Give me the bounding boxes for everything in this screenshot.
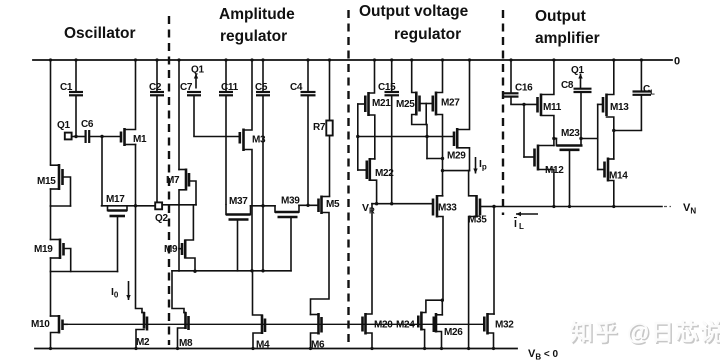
watermark zhihu bbox=[570, 319, 720, 347]
transistor M24 bbox=[418, 300, 442, 348]
capacitor C6 bbox=[86, 130, 90, 143]
svg-text:M6: M6 bbox=[311, 340, 325, 351]
transistor M20 bbox=[363, 204, 373, 349]
svg-text:Q1: Q1 bbox=[571, 65, 584, 76]
svg-text:C11: C11 bbox=[221, 82, 239, 93]
transistor M12 bbox=[524, 145, 554, 207]
wire C6 to M1 gate bbox=[89, 136, 121, 138]
svg-text:Q2: Q2 bbox=[155, 213, 168, 224]
svg-text:M39: M39 bbox=[281, 196, 300, 207]
svg-text:M4: M4 bbox=[256, 340, 270, 351]
transistor M25 bbox=[412, 60, 427, 137]
svg-text:Q1: Q1 bbox=[57, 120, 70, 131]
wire M15 source to M19 drain bbox=[50, 206, 52, 240]
svg-text:M7: M7 bbox=[166, 175, 180, 186]
svg-text:Amplitude: Amplitude bbox=[219, 6, 295, 23]
svg-text:M3: M3 bbox=[252, 135, 266, 146]
svg-text:M15: M15 bbox=[37, 176, 56, 187]
wire M21/M22 gate node vertical bbox=[357, 104, 359, 170]
transistor M32 bbox=[484, 313, 494, 349]
junction C4 on M5 gate wire bbox=[306, 204, 309, 207]
transistor M27 bbox=[433, 60, 443, 196]
section divider (dashed) output voltage regulator / output amplifier bbox=[502, 10, 504, 215]
wire M39 to M5 gate bbox=[299, 204, 319, 206]
node Q2 wire bbox=[102, 205, 156, 207]
svg-text:M12: M12 bbox=[545, 165, 564, 176]
wire C16 to M11 gate bbox=[511, 103, 538, 105]
resistor R7 bbox=[326, 60, 332, 197]
wire gate node to M29 gate bbox=[358, 136, 454, 138]
current arrow IL bbox=[516, 212, 538, 216]
wire chain down to M27 source link bbox=[426, 137, 428, 159]
transistor M13 bbox=[603, 60, 614, 159]
VN rail end dashes bbox=[664, 206, 671, 208]
svg-text:M33: M33 bbox=[438, 203, 457, 214]
wire Q1 pad to C6 bbox=[72, 136, 85, 138]
capacitor CL bbox=[633, 60, 652, 131]
capacitor C15 bbox=[385, 60, 400, 204]
capacitor C1 bbox=[69, 60, 83, 137]
wire link to M27/M33 vertical bbox=[427, 158, 443, 160]
svg-text:M2: M2 bbox=[136, 337, 150, 348]
junction C15 on VR wire bbox=[390, 202, 393, 205]
bias node wire y=271 (oscillator/regulator bias net) bbox=[172, 270, 291, 272]
wire gate vertical to M13 gate bbox=[598, 103, 603, 105]
transistor M26 bbox=[434, 313, 443, 349]
svg-text:regulator: regulator bbox=[394, 26, 461, 43]
transistor M5 bbox=[311, 196, 330, 315]
wire left vertical rail-to-M15 bbox=[50, 60, 52, 164]
svg-text:M23: M23 bbox=[561, 128, 580, 139]
transistor M19 bbox=[51, 239, 118, 272]
svg-text:L: L bbox=[519, 222, 524, 231]
capacitor C7 bbox=[187, 92, 201, 137]
wire gate link to source chain bbox=[425, 104, 427, 125]
junction M27 source vertical / link bbox=[441, 157, 444, 160]
wire Q2 pad to M7 source node bbox=[163, 204, 179, 206]
transistor M39 bbox=[275, 205, 299, 270]
svg-text:C8: C8 bbox=[561, 80, 574, 91]
transistor M14 bbox=[598, 158, 614, 207]
wire M11 source to M23 left arm bbox=[554, 138, 557, 140]
svg-text:M20: M20 bbox=[374, 320, 393, 331]
top rail (0 V supply net) bbox=[33, 59, 672, 61]
svg-text:M1: M1 bbox=[133, 134, 147, 145]
capacitor C11 bbox=[219, 60, 233, 205]
svg-text:M10: M10 bbox=[31, 319, 50, 330]
junction dots VN rail bbox=[552, 205, 615, 208]
wire M7 source node down past M9 gate bbox=[178, 205, 180, 271]
svg-text:M11: M11 bbox=[543, 102, 562, 113]
pad Q2 (crystal pin) bbox=[155, 202, 162, 209]
transistor M29 bbox=[454, 60, 470, 171]
junction gate node / M29 gate wire bbox=[356, 135, 359, 138]
svg-text:Output: Output bbox=[535, 8, 586, 25]
wire M11/M12 gate vertical bbox=[523, 104, 525, 157]
junction M33 source on M24/M26 jog bbox=[441, 299, 444, 302]
svg-text:M37: M37 bbox=[229, 196, 248, 207]
junction M22 source on VR wire bbox=[375, 202, 378, 205]
transistor M17 bbox=[108, 206, 128, 272]
VN rail (negative output net) bbox=[494, 206, 662, 208]
junction C5 on M37/M39 wire bbox=[261, 204, 264, 207]
svg-text:M35: M35 bbox=[468, 215, 487, 226]
wire M37 drain to M39 drain bbox=[251, 205, 276, 207]
output node wire to CL bbox=[614, 130, 642, 132]
svg-text:M25: M25 bbox=[396, 99, 415, 110]
wire M1 source down to M2 drain bbox=[136, 145, 143, 313]
svg-text:R7: R7 bbox=[313, 122, 326, 133]
transistor M4 bbox=[253, 271, 266, 349]
svg-text:M9: M9 bbox=[164, 244, 178, 255]
current arrow Q1 into C7 bbox=[194, 74, 198, 89]
svg-text:M8: M8 bbox=[179, 338, 193, 349]
wire oscillator feedback vertical to M17 bbox=[101, 137, 103, 206]
transistor M35 bbox=[469, 171, 494, 349]
svg-text:M21: M21 bbox=[372, 98, 391, 109]
svg-text:M24: M24 bbox=[396, 320, 415, 331]
junction M25 source chain on M29 gate wire bbox=[425, 135, 428, 138]
transistor M11 bbox=[538, 60, 554, 146]
section divider (dashed) amplitude regulator / output voltage regulator bbox=[347, 10, 349, 347]
capacitor C5 bbox=[256, 60, 270, 271]
transistor M3 bbox=[240, 60, 252, 271]
svg-text:C5: C5 bbox=[255, 82, 268, 93]
svg-text:C7: C7 bbox=[180, 82, 193, 93]
svg-text:voltage: voltage bbox=[414, 3, 469, 20]
svg-text:0: 0 bbox=[674, 56, 680, 68]
svg-text:VB < 0: VB < 0 bbox=[528, 348, 559, 362]
junction VN rail start bbox=[492, 205, 495, 208]
svg-text:M29: M29 bbox=[447, 151, 466, 162]
transistor M6 bbox=[311, 313, 322, 349]
current arrow I0 bbox=[126, 281, 130, 300]
svg-text:M17: M17 bbox=[106, 194, 125, 205]
transistor M37 bbox=[226, 205, 251, 271]
svg-text:Output: Output bbox=[359, 3, 410, 20]
bottom rail (VB supply net) bbox=[35, 348, 517, 350]
transistor M1 bbox=[121, 60, 136, 146]
svg-text:M13: M13 bbox=[610, 102, 629, 113]
wire M23 right arm branch to M13/M14 gates bbox=[581, 138, 598, 140]
svg-text:C4: C4 bbox=[290, 82, 303, 93]
capacitor C4 bbox=[301, 60, 316, 205]
svg-text:C16: C16 bbox=[515, 83, 533, 94]
svg-text:I: I bbox=[514, 218, 517, 230]
svg-text:M14: M14 bbox=[609, 171, 628, 182]
transistor M10 bbox=[51, 315, 68, 349]
svg-text:C15: C15 bbox=[378, 82, 396, 93]
wire rail to M7 drain bbox=[178, 60, 180, 170]
section divider (dashed) oscillator / amplitude regulator bbox=[168, 16, 170, 345]
wire M25/M27 gate link bbox=[420, 103, 433, 105]
transistor M2 bbox=[136, 312, 147, 349]
transistor M7 bbox=[179, 169, 196, 205]
node VR wire bbox=[372, 203, 433, 205]
capacitor C16 bbox=[504, 60, 519, 104]
svg-text:regulator: regulator bbox=[220, 28, 287, 45]
junction dots bottom rail bbox=[49, 347, 495, 350]
transistor M8 bbox=[178, 312, 189, 349]
svg-text:M27: M27 bbox=[441, 98, 460, 109]
transistor M9 bbox=[179, 205, 195, 272]
svg-text:知乎 @日芯说: 知乎 @日芯说 bbox=[570, 319, 720, 345]
current arrow Ip bbox=[473, 157, 477, 174]
svg-text:M26: M26 bbox=[444, 327, 463, 338]
svg-text:C6: C6 bbox=[81, 119, 94, 130]
svg-text:M5: M5 bbox=[326, 199, 340, 210]
svg-text:M19: M19 bbox=[34, 244, 53, 255]
wire M13/M14 gate vertical bbox=[597, 104, 599, 169]
junction M3 source / bias wire / M4 drain bbox=[250, 269, 253, 272]
svg-text:M32: M32 bbox=[495, 320, 514, 331]
node A junction C1/C6 wire bbox=[74, 135, 77, 138]
current arrow Q1 into C8 bbox=[578, 74, 582, 89]
junction M9 source on bias wire bbox=[193, 270, 196, 273]
junction Ip node bbox=[441, 169, 444, 172]
pad Q1 (crystal pin) bbox=[65, 133, 72, 140]
junction M1 source / Q2 node bbox=[134, 204, 137, 207]
wire M35 gate / M32 drain vertical bbox=[493, 207, 495, 315]
junction dots top rail bbox=[49, 58, 643, 61]
wire bias node down to M8 drain bbox=[172, 271, 184, 313]
junction C5 bottom on bias wire bbox=[261, 269, 264, 272]
capacitor C8 bbox=[574, 89, 592, 146]
svg-text:C1: C1 bbox=[60, 82, 73, 93]
svg-text:Q1: Q1 bbox=[191, 65, 204, 76]
transistor M15 bbox=[51, 164, 71, 206]
gate bias bus wire (bottom current mirrors) bbox=[64, 323, 485, 325]
transistor M21 bbox=[358, 60, 375, 159]
transistor M33 bbox=[433, 195, 443, 300]
capacitor C2 bbox=[150, 60, 164, 202]
wire M29 source to M33 drain node bbox=[443, 170, 470, 172]
wire M19 source to M10 drain bbox=[50, 272, 52, 317]
transistor M22 bbox=[358, 158, 377, 204]
wire C7 to M3 gate bbox=[194, 136, 240, 138]
svg-text:amplifier: amplifier bbox=[535, 30, 600, 47]
transistor M23 bbox=[556, 139, 582, 207]
svg-text:Oscillator: Oscillator bbox=[64, 25, 136, 42]
svg-text:C2: C2 bbox=[149, 82, 162, 93]
